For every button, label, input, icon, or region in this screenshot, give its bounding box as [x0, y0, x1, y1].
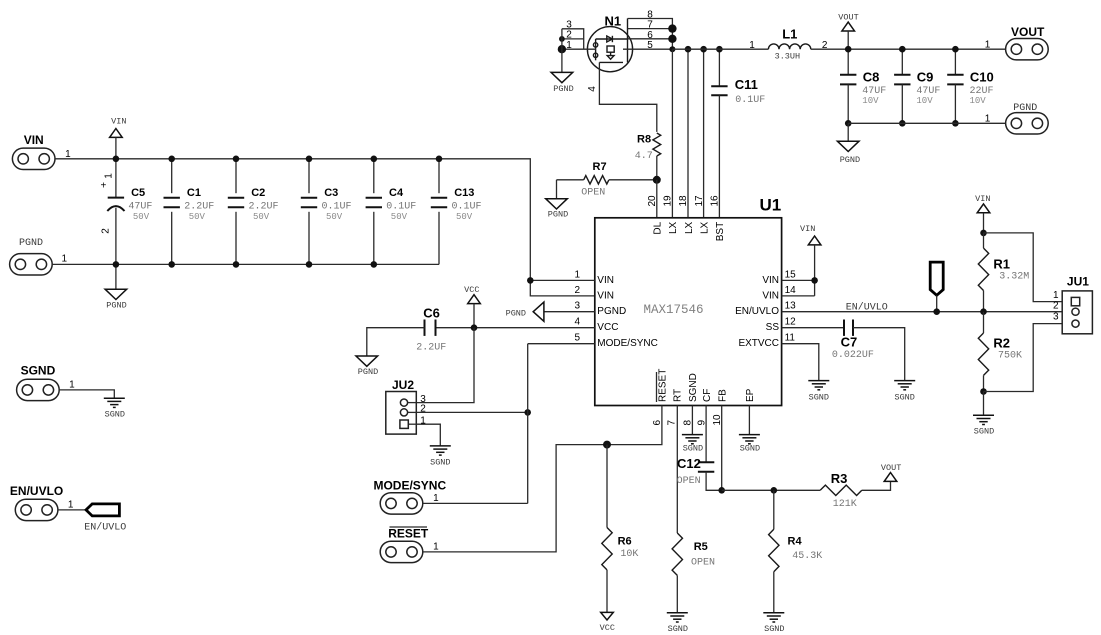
- svg-text:MODE/SYNC: MODE/SYNC: [373, 478, 446, 492]
- svg-text:1: 1: [69, 380, 75, 391]
- svg-text:50V: 50V: [391, 212, 408, 222]
- svg-text:4: 4: [587, 86, 598, 92]
- junction C2 top: [233, 156, 240, 163]
- svg-text:19: 19: [663, 195, 674, 207]
- ground SGND (R4): [763, 613, 784, 634]
- junction C8 bottom: [845, 120, 852, 127]
- svg-text:CF: CF: [702, 389, 713, 402]
- svg-text:10V: 10V: [970, 96, 987, 106]
- junction RESET/R6: [603, 441, 611, 449]
- N1 pin 1: [558, 40, 596, 54]
- svg-text:1: 1: [574, 269, 580, 280]
- power symbol VCC: [464, 285, 480, 331]
- svg-text:VOUT: VOUT: [838, 13, 858, 23]
- N1 pin 7: [628, 20, 677, 33]
- svg-text:VIN: VIN: [111, 116, 126, 126]
- junction C3 bottom: [306, 261, 313, 268]
- U1 pin 19 LX (top): [663, 195, 680, 234]
- wire MODE/SYNC connector: [423, 502, 528, 504]
- svg-text:50V: 50V: [133, 212, 150, 222]
- U1 pin 6 RESET (bottom): [652, 369, 669, 426]
- svg-text:4.7: 4.7: [635, 151, 653, 162]
- svg-text:VIN: VIN: [762, 290, 779, 301]
- svg-text:4: 4: [574, 317, 580, 328]
- svg-text:20: 20: [647, 195, 658, 207]
- wire FB node: [722, 487, 821, 494]
- svg-text:1: 1: [433, 493, 439, 504]
- svg-text:2.2UF: 2.2UF: [249, 201, 279, 212]
- U1 pin 10 FB (bottom): [712, 389, 729, 426]
- ground PGND (C6): [356, 356, 378, 377]
- svg-text:11: 11: [785, 333, 796, 344]
- U1 pin 15 VIN: [762, 269, 814, 286]
- U1 pin 1 VIN: [527, 269, 614, 286]
- wire LX node to L1: [672, 40, 768, 51]
- svg-text:1: 1: [62, 254, 68, 265]
- svg-text:2: 2: [822, 40, 828, 51]
- svg-text:LX: LX: [668, 221, 679, 234]
- junction C2 bottom: [233, 261, 240, 268]
- junction R1 top: [980, 230, 987, 237]
- svg-text:R2: R2: [993, 336, 1010, 351]
- ground SGND (JU2): [430, 446, 451, 467]
- svg-text:C8: C8: [863, 70, 880, 85]
- wire R1 top to JU1 pin 1: [984, 233, 1072, 302]
- svg-text:2.2UF: 2.2UF: [184, 201, 214, 212]
- capacitor C7 0.022UF: [832, 320, 905, 381]
- power symbol VOUT (R3): [881, 463, 901, 481]
- power symbol VOUT (rail): [838, 13, 858, 50]
- svg-text:10V: 10V: [916, 96, 933, 106]
- resistor R5 OPEN: [672, 406, 715, 613]
- ground SGND (R2): [973, 415, 994, 436]
- ground SGND (EP): [739, 435, 760, 454]
- svg-text:VIN: VIN: [800, 224, 815, 234]
- capacitor C9 47UF 10V: [894, 49, 940, 123]
- svg-text:OPEN: OPEN: [677, 476, 701, 487]
- svg-text:C9: C9: [917, 70, 934, 85]
- svg-text:EXTVCC: EXTVCC: [738, 338, 779, 349]
- op-amp U1 MAX17546 (IC body): [595, 196, 782, 406]
- svg-text:0.1UF: 0.1UF: [735, 95, 765, 106]
- svg-text:VCC: VCC: [600, 623, 615, 633]
- svg-text:VIN: VIN: [597, 275, 614, 286]
- svg-text:C4: C4: [389, 187, 404, 199]
- U1 pin 13 EN/UVLO / net EN/UVLO: [735, 301, 1071, 318]
- junction C9 top: [899, 46, 906, 53]
- svg-text:VIN: VIN: [597, 290, 614, 301]
- svg-text:PGND: PGND: [358, 367, 378, 377]
- N1 pin 3: [562, 19, 584, 49]
- svg-text:C7: C7: [841, 334, 858, 349]
- svg-text:2: 2: [574, 285, 580, 296]
- junction C10 top: [952, 46, 959, 53]
- svg-text:2: 2: [100, 228, 111, 234]
- U1 pin 17 LX (top): [694, 195, 711, 234]
- capacitor C13 0.1UF 50V: [431, 159, 482, 265]
- capacitor C3 0.1UF 50V: [301, 159, 352, 265]
- svg-text:PGND: PGND: [840, 155, 860, 165]
- wire FB pin 10: [718, 406, 725, 494]
- wire SGND pin 8: [691, 406, 693, 435]
- svg-text:SGND: SGND: [668, 624, 688, 634]
- N1 pin 8: [628, 10, 673, 50]
- wire R2 to SGND: [983, 392, 985, 416]
- svg-text:SGND: SGND: [683, 444, 703, 454]
- connector PGND (input): [10, 238, 68, 275]
- svg-text:1: 1: [749, 40, 755, 51]
- svg-text:1: 1: [68, 499, 74, 510]
- U1 pin 14 VIN: [762, 285, 814, 302]
- svg-text:EN/UVLO: EN/UVLO: [84, 521, 126, 533]
- svg-text:EN/UVLO: EN/UVLO: [10, 484, 63, 498]
- svg-text:PGND: PGND: [19, 238, 43, 249]
- svg-text:121K: 121K: [833, 499, 857, 510]
- svg-text:N1: N1: [605, 14, 622, 29]
- resistor R4 45.3K: [769, 490, 823, 613]
- junction C3 top: [306, 156, 313, 163]
- resistor R1 3.32M: [978, 233, 1029, 312]
- svg-text:VCC: VCC: [597, 322, 618, 333]
- svg-text:5: 5: [647, 40, 653, 51]
- svg-text:0.022UF: 0.022UF: [832, 350, 874, 361]
- svg-text:EN/UVLO: EN/UVLO: [735, 306, 779, 317]
- jumper JU2: [386, 378, 427, 434]
- svg-text:FB: FB: [718, 389, 729, 402]
- svg-text:C6: C6: [423, 306, 440, 321]
- svg-text:DL: DL: [653, 221, 664, 234]
- svg-text:750K: 750K: [998, 351, 1022, 362]
- capacitor C10 22UF 10V: [947, 49, 994, 123]
- wire SGND connector to ground: [59, 390, 114, 398]
- svg-text:1: 1: [566, 40, 572, 51]
- svg-text:3.32M: 3.32M: [999, 271, 1029, 282]
- wire JU2 pin 2 to MODE/SYNC net: [416, 409, 531, 416]
- resistor R2 750K: [978, 312, 1022, 392]
- junction C10 bottom: [952, 120, 959, 127]
- connector MODE/SYNC: [373, 478, 446, 514]
- connector VIN (J-VIN): [12, 133, 71, 170]
- resistor R8 4.7: [635, 133, 661, 180]
- U1 pin EP (bottom): [745, 388, 756, 402]
- connector EN/UVLO: [10, 484, 74, 521]
- svg-text:PGND: PGND: [1013, 103, 1037, 114]
- svg-text:U1: U1: [760, 196, 782, 215]
- wire EN/UVLO connector to net flag: [58, 509, 86, 511]
- N1 pin 5 / node LX: [623, 40, 675, 52]
- svg-text:45.3K: 45.3K: [792, 551, 822, 562]
- N1 pin 2: [559, 30, 584, 42]
- svg-text:16: 16: [710, 195, 721, 207]
- svg-text:10V: 10V: [862, 96, 879, 106]
- svg-text:C1: C1: [187, 187, 201, 199]
- ground SGND (EXTVCC): [808, 381, 829, 403]
- junction C4 bottom: [371, 261, 378, 268]
- svg-text:47UF: 47UF: [128, 201, 152, 212]
- wire RESET connector to pin 6: [423, 406, 662, 552]
- transistor N1 (power MOSFET): [587, 14, 632, 72]
- ground PGND (R7): [546, 180, 569, 220]
- jumper JU1: [1053, 274, 1092, 333]
- svg-text:18: 18: [678, 195, 689, 207]
- wire VCC to JU2 pin 3: [416, 328, 474, 403]
- U1 pin 20 DL (top): [647, 195, 664, 235]
- ground PGND (N1 source): [551, 72, 574, 93]
- svg-text:3: 3: [574, 301, 580, 312]
- junction C13 top: [436, 156, 443, 163]
- wire VIN rail: [116, 159, 595, 296]
- U1 pin 12 SS: [766, 317, 844, 334]
- U1 pin 11 EXTVCC: [738, 333, 818, 381]
- wire L1 to VOUT connector: [811, 40, 1006, 51]
- junction C8 top: [845, 46, 852, 53]
- ground SGND (pin 8): [682, 435, 703, 454]
- svg-text:50V: 50V: [326, 212, 343, 222]
- svg-text:MAX17546: MAX17546: [644, 303, 704, 317]
- svg-text:R4: R4: [788, 536, 803, 548]
- svg-text:50V: 50V: [189, 212, 206, 222]
- svg-text:SGND: SGND: [105, 410, 125, 420]
- power symbol VIN (R1 top): [975, 194, 990, 233]
- capacitor C5 47UF 50V (polarized): [100, 159, 152, 265]
- svg-text:1: 1: [985, 40, 991, 51]
- svg-text:JU2: JU2: [392, 378, 414, 392]
- svg-text:VOUT: VOUT: [1011, 25, 1045, 39]
- junction R7/R8/DL: [653, 176, 661, 184]
- junction C5 bottom: [113, 261, 120, 268]
- connector PGND (output): [985, 103, 1048, 134]
- U1 pin 16 BST (top): [710, 195, 727, 241]
- svg-text:LX: LX: [684, 221, 695, 234]
- connector VOUT: [985, 25, 1048, 60]
- svg-text:R6: R6: [618, 536, 632, 548]
- svg-text:R7: R7: [593, 161, 607, 173]
- svg-text:C3: C3: [324, 187, 338, 199]
- svg-text:PGND: PGND: [597, 306, 626, 317]
- svg-text:PGND: PGND: [553, 84, 573, 94]
- svg-text:SGND: SGND: [894, 393, 914, 403]
- svg-text:14: 14: [785, 285, 797, 296]
- svg-text:3: 3: [1053, 312, 1059, 323]
- svg-text:0.1UF: 0.1UF: [452, 201, 482, 212]
- junction EN/UVLO / R1 / R2: [980, 308, 987, 315]
- capacitor C1 2.2UF 50V: [164, 159, 215, 265]
- svg-text:L1: L1: [782, 26, 797, 41]
- svg-text:2.2UF: 2.2UF: [416, 343, 446, 354]
- wire MODE/SYNC vertical: [527, 344, 529, 504]
- svg-text:RESET: RESET: [388, 527, 429, 541]
- U1 pin 4 VCC: [436, 317, 619, 334]
- svg-text:C5: C5: [131, 187, 145, 199]
- svg-text:0.1UF: 0.1UF: [322, 201, 352, 212]
- U1 pin 9 CF (bottom): [696, 389, 713, 426]
- N1 pin 6: [628, 30, 677, 43]
- connector SGND: [17, 364, 76, 401]
- svg-text:R1: R1: [993, 257, 1010, 272]
- svg-text:LX: LX: [699, 221, 710, 234]
- svg-text:OPEN: OPEN: [691, 557, 715, 568]
- svg-text:C10: C10: [970, 70, 994, 85]
- svg-text:R5: R5: [694, 541, 708, 553]
- svg-text:BST: BST: [715, 222, 726, 241]
- svg-text:EN/UVLO: EN/UVLO: [846, 301, 888, 313]
- power symbol VIN (U1 bias): [800, 224, 821, 296]
- svg-text:50V: 50V: [456, 212, 473, 222]
- capacitor C8 47UF 10V: [840, 49, 886, 123]
- svg-text:R8: R8: [637, 134, 651, 146]
- capacitor C11 0.1UF / wire BST pin 16: [711, 46, 765, 218]
- svg-text:SGND: SGND: [740, 444, 760, 454]
- svg-text:10K: 10K: [620, 549, 638, 560]
- N1 pin 4 (gate): [587, 62, 657, 131]
- svg-text:2: 2: [420, 404, 426, 415]
- svg-text:SGND: SGND: [974, 427, 994, 437]
- svg-text:SS: SS: [766, 322, 780, 333]
- wire R2 bottom to JU1 pin 3: [984, 324, 1072, 392]
- wire N1 source to PGND: [561, 29, 563, 73]
- svg-text:5: 5: [574, 333, 580, 344]
- svg-text:VIN: VIN: [24, 133, 44, 147]
- power symbol VIN (input rail): [110, 116, 127, 158]
- ground SGND (connector): [104, 398, 125, 419]
- ground PGND (output): [837, 123, 860, 165]
- wire output ground rail: [848, 122, 1006, 124]
- svg-text:VIN: VIN: [975, 194, 990, 204]
- U1 pin 2 VIN: [574, 285, 614, 302]
- resistor R7 OPEN: [557, 161, 657, 199]
- U1 pin 8 SGND (bottom): [683, 373, 700, 425]
- wire LX pin 19: [671, 49, 673, 218]
- svg-text:VIN: VIN: [762, 275, 779, 286]
- svg-text:PGND: PGND: [106, 300, 126, 310]
- svg-text:EP: EP: [745, 388, 756, 402]
- svg-text:1: 1: [433, 542, 439, 553]
- junction C4 top: [371, 156, 378, 163]
- svg-text:RESET: RESET: [658, 369, 669, 402]
- test point flag (EN/UVLO): [930, 262, 943, 315]
- svg-text:+: +: [100, 181, 106, 192]
- svg-text:17: 17: [694, 195, 705, 207]
- svg-text:JU1: JU1: [1067, 274, 1089, 288]
- wire EP pad: [748, 406, 750, 435]
- resistor R3 121K: [820, 471, 890, 510]
- capacitor C12 OPEN: [677, 406, 722, 491]
- svg-text:PGND: PGND: [548, 210, 568, 220]
- junction C1 bottom: [168, 261, 175, 268]
- resistor R6 10K: [602, 445, 639, 613]
- capacitor C6 2.2UF: [416, 306, 446, 354]
- svg-text:13: 13: [785, 301, 797, 312]
- U1 pin 7 RT (bottom): [667, 389, 684, 426]
- junction C1 top: [168, 156, 175, 163]
- wire VIN connector to VIN rail: [55, 158, 116, 160]
- wire JU2 pin 1 to SGND: [416, 424, 440, 446]
- svg-text:PGND: PGND: [506, 308, 526, 318]
- net label flag EN/UVLO: [84, 504, 126, 533]
- ground SGND (C7): [894, 381, 915, 403]
- wire C6 to PGND: [367, 328, 425, 356]
- svg-text:50V: 50V: [253, 212, 270, 222]
- svg-text:VCC: VCC: [464, 285, 479, 295]
- svg-text:MODE/SYNC: MODE/SYNC: [597, 338, 658, 349]
- ground SGND (R5): [667, 613, 688, 634]
- svg-text:1: 1: [103, 173, 114, 179]
- junction C9 bottom: [899, 120, 906, 127]
- svg-text:15: 15: [785, 269, 797, 280]
- svg-text:SGND: SGND: [764, 624, 784, 634]
- wire LX pin 17: [700, 46, 707, 218]
- svg-text:SGND: SGND: [430, 457, 450, 467]
- inductor L1 3.3UH: [768, 26, 810, 61]
- svg-text:7: 7: [667, 420, 678, 426]
- svg-text:3.3UH: 3.3UH: [775, 51, 801, 61]
- svg-text:C12: C12: [677, 456, 701, 471]
- capacitor C4 0.1UF 50V: [366, 159, 417, 265]
- svg-text:SGND: SGND: [21, 364, 56, 378]
- U1 pin 3 PGND (power input arrow): [506, 301, 627, 322]
- U1 pin 18 LX (top): [678, 195, 695, 234]
- svg-text:2: 2: [1053, 301, 1059, 312]
- svg-text:SGND: SGND: [688, 373, 699, 402]
- junction C5 top: [113, 156, 120, 163]
- svg-text:SGND: SGND: [809, 393, 829, 403]
- connector RESET: [380, 527, 439, 563]
- ground PGND (under C5): [105, 264, 127, 310]
- U1 pin 5 MODE/SYNC: [528, 333, 658, 350]
- capacitor C2 2.2UF 50V: [228, 159, 279, 265]
- wire LX pin 18: [685, 46, 692, 218]
- svg-text:0.1UF: 0.1UF: [386, 201, 416, 212]
- power symbol VCC (R6 bottom): [600, 612, 615, 633]
- svg-text:1: 1: [985, 113, 991, 124]
- svg-text:C2: C2: [251, 187, 265, 199]
- svg-text:C13: C13: [454, 187, 474, 199]
- svg-text:12: 12: [785, 317, 797, 328]
- svg-text:OPEN: OPEN: [581, 188, 605, 199]
- svg-text:C11: C11: [735, 77, 758, 92]
- junction R2 bottom: [980, 388, 987, 395]
- svg-text:RT: RT: [672, 389, 683, 402]
- svg-text:VOUT: VOUT: [881, 463, 901, 473]
- wire DL pin 20: [656, 180, 658, 218]
- svg-text:R3: R3: [831, 471, 848, 486]
- wire PGND rail: [52, 263, 439, 265]
